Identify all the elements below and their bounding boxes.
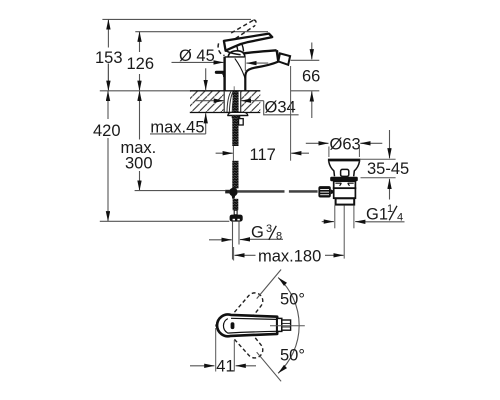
junction dot — [229, 188, 238, 197]
flange sides — [329, 161, 335, 176]
svg-text:300: 300 — [125, 155, 153, 173]
centerline — [270, 325, 305, 327]
lever rear bottom edge — [226, 51, 241, 55]
lever (solid) — [224, 34, 272, 51]
wire: deck level reference to left columns — [100, 90, 190, 92]
svg-text:3: 3 — [266, 223, 272, 235]
svg-text:8: 8 — [276, 231, 282, 243]
svg-text:153: 153 — [95, 49, 123, 67]
spout bottom edge and body right contour — [245, 62, 278, 91]
deck hatching left block — [190, 92, 223, 112]
dashed lever upper position — [234, 289, 267, 361]
spout outlet extension line — [290, 66, 292, 161]
wire: 420 bottom reference line — [100, 220, 230, 222]
aerator — [278, 53, 290, 64]
threaded shank through hole — [233, 91, 239, 113]
washer below deck — [228, 112, 248, 115]
svg-text:4: 4 — [397, 212, 403, 224]
side protrusion knob — [215, 71, 225, 74]
svg-text:50°: 50° — [280, 291, 305, 309]
hole edge lines — [223, 91, 225, 113]
threaded stud segment B — [232, 161, 238, 189]
lever neck lines — [242, 44, 244, 52]
lower body — [334, 188, 356, 198]
mounting nut under washer — [232, 115, 241, 119]
body interior curve — [235, 58, 245, 80]
collar — [336, 198, 355, 204]
body left edge — [223, 57, 225, 91]
svg-text:G1: G1 — [366, 206, 388, 224]
117 extension line (in stud break) — [232, 146, 234, 161]
upper body with clamp tabs — [334, 181, 356, 188]
dimension 126 line — [139, 32, 141, 52]
flexible hose curves through hole — [227, 91, 231, 112]
body top edge — [225, 56, 246, 58]
lever pin — [215, 324, 224, 327]
svg-text:Ø63: Ø63 — [330, 135, 361, 153]
wire: max.300 bottom reference line — [135, 190, 226, 192]
svg-text:420: 420 — [93, 122, 121, 140]
svg-text:66: 66 — [302, 68, 320, 86]
seat ring (black band) — [330, 177, 358, 181]
stud neck — [234, 210, 237, 215]
spout end face — [277, 50, 279, 61]
lever tip collar and rod — [277, 318, 282, 331]
svg-text:max.180: max.180 — [258, 248, 321, 266]
svg-text:50°: 50° — [280, 347, 305, 365]
tail extension lines — [334, 205, 336, 228]
threaded stud segment A — [232, 115, 238, 146]
dashed lever raised position — [218, 20, 256, 55]
svg-text:126: 126 — [127, 55, 155, 73]
dimension 153 line — [107, 19, 109, 47]
hose nut at drain — [318, 186, 330, 197]
dimension max.300 line — [139, 91, 141, 140]
svg-text:117: 117 — [250, 146, 276, 164]
drain flange top — [328, 159, 360, 162]
deck bottom line — [190, 111, 260, 113]
hose nipple square — [239, 119, 244, 125]
threaded stud segment C — [233, 199, 239, 210]
cartridge dome — [228, 51, 245, 57]
deck hatching right block — [241, 92, 260, 112]
svg-text:41: 41 — [216, 357, 234, 375]
svg-text:1: 1 — [387, 203, 393, 215]
svg-text:G: G — [251, 223, 264, 241]
deck top line — [190, 90, 260, 92]
supply nut — [230, 215, 243, 222]
wire: second reference line (lever down tip level) — [135, 31, 268, 33]
plug knob — [341, 169, 349, 176]
lever plan view — [217, 315, 277, 337]
G3/8 pipe lines — [232, 222, 234, 260]
swing arc — [278, 278, 299, 374]
spout top edge — [244, 50, 277, 53]
Ø63 dimension — [306, 142, 329, 144]
wire: top reference line (lever raised tip level) — [102, 18, 251, 20]
svg-text:35-45: 35-45 — [367, 160, 409, 178]
swing rays — [257, 270, 281, 299]
Ø45 right arrow — [246, 62, 268, 64]
Ø45 right extension line — [244, 57, 246, 71]
shank centreline stub inside body — [233, 86, 235, 90]
dimension 420 line (below deck on same column) — [107, 91, 109, 119]
